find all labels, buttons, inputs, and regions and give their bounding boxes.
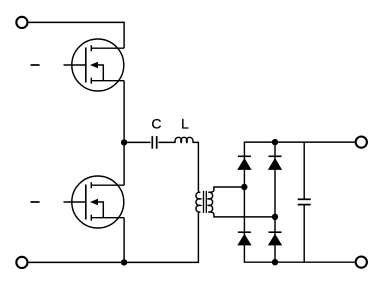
svg-text:L: L <box>181 116 189 132</box>
svg-text:C: C <box>151 116 161 132</box>
